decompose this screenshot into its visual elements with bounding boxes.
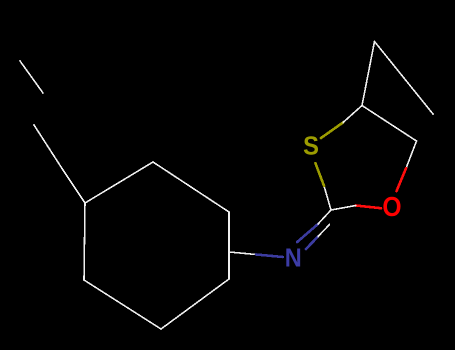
svg-text:S: S [303, 133, 319, 161]
bond C4 to C5 [362, 106, 417, 142]
bond O to C2 (red half) [356, 206, 381, 209]
bond S to C4 (white half) [343, 106, 362, 123]
substituent E1 from C4 up [362, 42, 375, 106]
double bond N=C2 line 2 [306, 237, 318, 250]
bond stub B to ring [63, 170, 85, 203]
bond C1 to N (blue half) [256, 255, 283, 258]
carbocycle ring left [84, 162, 229, 329]
methyl stub A top-left [20, 61, 43, 93]
bond C2 to S (white half) [324, 186, 331, 210]
bond C5 to O (red half) [397, 168, 407, 191]
svg-text:N: N [285, 245, 302, 273]
svg-text:O: O [382, 191, 401, 222]
methyl stub B left [34, 125, 63, 170]
bond S to C4 (olive half) [321, 123, 343, 139]
bond C5 to O (white half) [406, 141, 416, 168]
bond C2 to S (olive half) [315, 163, 324, 186]
substituent E2 from apex down-right [375, 42, 434, 115]
double bond N=C2 line 1 [297, 224, 318, 242]
bond O to C2 (white half) [331, 206, 356, 211]
bond C1 to N (white half) [229, 252, 256, 255]
